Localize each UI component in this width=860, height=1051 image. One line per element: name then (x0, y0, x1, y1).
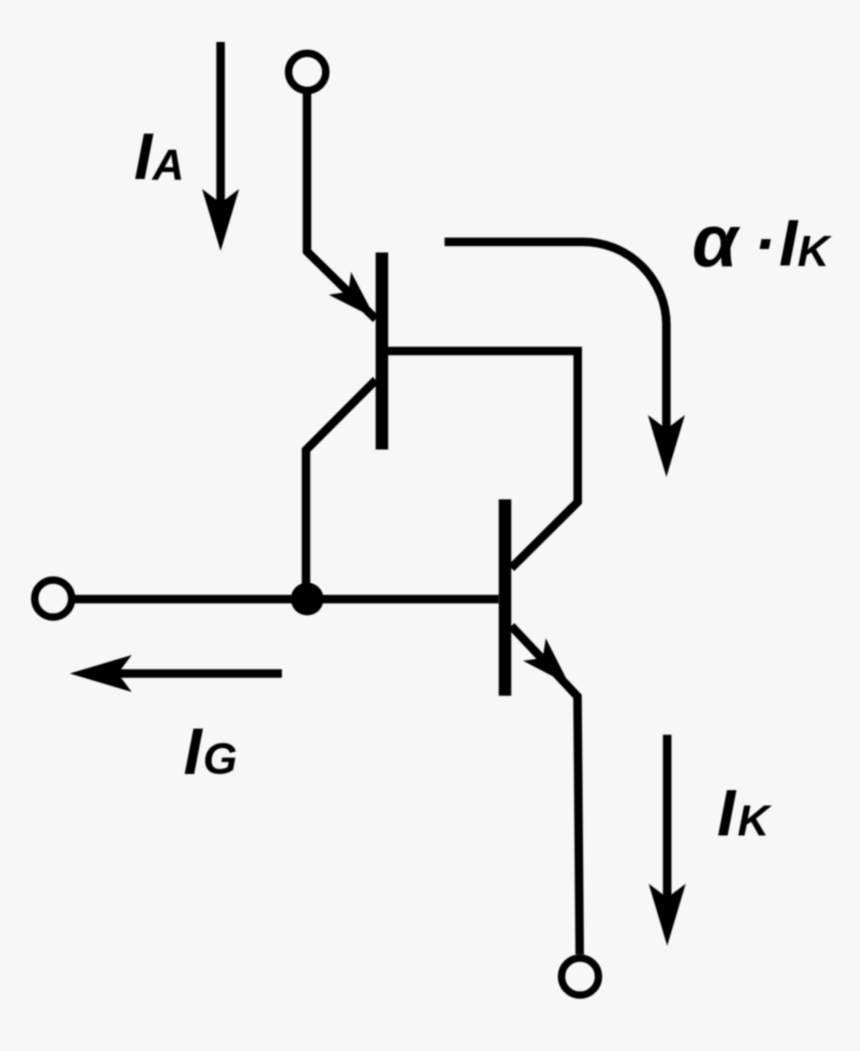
svg-text:·: · (754, 206, 776, 280)
svg-text:K: K (738, 797, 773, 846)
svg-text:K: K (798, 227, 833, 276)
svg-text:G: G (203, 735, 237, 784)
svg-text:A: A (152, 141, 185, 190)
svg-text:α: α (692, 199, 741, 282)
svg-text:I: I (184, 714, 204, 788)
svg-text:I: I (134, 119, 154, 193)
svg-text:I: I (779, 206, 799, 280)
svg-text:I: I (717, 776, 737, 850)
